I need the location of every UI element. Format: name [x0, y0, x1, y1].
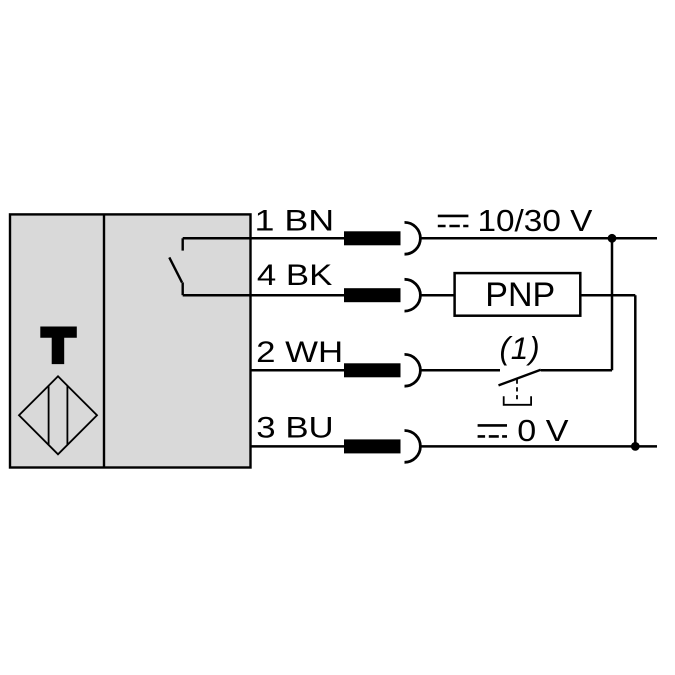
svg-text:PNP: PNP [485, 276, 555, 314]
svg-text:0 V: 0 V [517, 414, 568, 448]
internal output contact switch [169, 238, 182, 295]
external switch actuator bracket [504, 396, 531, 405]
DC symbol at 0 V [478, 424, 507, 427]
wire 2 WH to external switch [420, 369, 500, 372]
junction dot on wire 1 [608, 234, 617, 243]
svg-text:2 WH: 2 WH [256, 336, 343, 369]
vertical wire from +V junction down to external switch [611, 238, 614, 370]
svg-text:1 BN: 1 BN [255, 204, 335, 237]
connector bar 1 [344, 231, 401, 245]
vertical wire from PNP output down to 0 V [634, 295, 637, 446]
sensor body [10, 214, 251, 467]
svg-text:4 BK: 4 BK [257, 258, 333, 291]
wire 3 BU from body to connector [251, 445, 345, 448]
svg-text:10/30 V: 10/30 V [478, 203, 593, 238]
svg-text:(1): (1) [500, 330, 541, 366]
wire from external switch to vertical [541, 369, 612, 372]
wire 1 BN from internal switch to connector [183, 237, 344, 240]
connector bar 4 [344, 288, 401, 302]
external switch actuator dashed stem [516, 380, 518, 403]
wire 4 BK from internal switch to connector [183, 294, 344, 297]
svg-text:3 BU: 3 BU [256, 411, 333, 444]
diamond left chord [48, 386, 50, 445]
connector bar 3 [344, 439, 401, 453]
wire 3 BU right segment [420, 445, 657, 448]
wire from PNP box to right vertical [580, 294, 635, 297]
wire 4 BK to PNP box [420, 294, 454, 297]
PNP output box [455, 273, 581, 316]
sensor body divider [103, 214, 105, 467]
DC supply symbol at 10/30 V [438, 215, 469, 218]
junction dot on wire 3 BU [631, 442, 640, 451]
connector socket arc 3 [405, 431, 421, 463]
diamond right chord [66, 386, 68, 445]
wire 2 WH from body to connector [251, 369, 345, 372]
wire 1 BN right segment [420, 237, 657, 240]
target diamond symbol [19, 376, 97, 454]
connector socket arc 2 [405, 354, 421, 386]
T symbol [40, 327, 77, 365]
connector bar 2 [344, 363, 401, 377]
connector socket arc 4 [405, 279, 421, 311]
external switch blade [499, 370, 541, 386]
connector socket arc 1 [405, 222, 421, 254]
